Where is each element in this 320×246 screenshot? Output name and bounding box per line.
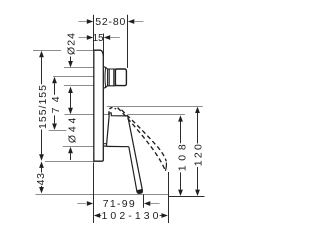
svg-text:108: 108 xyxy=(176,144,188,171)
cartridge sleeve lip arc xyxy=(104,68,107,88)
svg-text:Ø44: Ø44 xyxy=(67,117,79,143)
lever tip cap (solid dark) xyxy=(137,189,143,194)
dashed lever tip face xyxy=(165,163,166,171)
dimension 155/155 xyxy=(39,51,44,161)
wire: extension bar plate-front x103.4 xyxy=(103,34,105,57)
dimension 71-99 xyxy=(77,201,159,206)
wire: gray leader plate-top y50 xyxy=(33,50,94,52)
wire: gray leader cartridge-top y67.7 xyxy=(64,67,94,69)
handle base bottom edge xyxy=(107,145,129,147)
dimension Ø44 xyxy=(68,147,73,160)
wire: gray leader base-bottom y146.2 xyxy=(63,146,94,148)
wire: gray leader cartridge-bottom y86 xyxy=(64,85,94,87)
wire: extension bar dashed-tip x168.1 xyxy=(168,172,170,223)
wire: extension bar cartridge-front x127.5 xyxy=(127,15,129,68)
svg-text:Ø24: Ø24 xyxy=(66,33,78,55)
wire: dark tick handle-bottom right segment xyxy=(169,196,205,198)
dimension 15 xyxy=(78,35,119,40)
dimension 108 xyxy=(178,115,183,196)
svg-text:71-99: 71-99 xyxy=(103,198,135,210)
svg-text:15: 15 xyxy=(93,33,104,44)
cartridge sleeve xyxy=(104,67,108,89)
svg-text:155/155: 155/155 xyxy=(37,85,49,129)
svg-text:52-80: 52-80 xyxy=(95,16,125,28)
wire: gray leader plate-bottom y161.3 xyxy=(45,161,94,163)
svg-text:74: 74 xyxy=(50,96,62,113)
dimension 52-80 xyxy=(78,19,143,24)
wire: gray leader cartridge-center y76.4 xyxy=(53,76,94,78)
cartridge block xyxy=(115,69,126,86)
wire: extension bar solid-tip x143.5 xyxy=(143,195,145,208)
handle base (solid, lever down) xyxy=(103,113,127,146)
svg-text:102-130: 102-130 xyxy=(102,210,159,222)
svg-text:43: 43 xyxy=(35,173,47,186)
dimension 120 xyxy=(195,107,200,196)
dimension 74 xyxy=(52,77,57,130)
lever blade (solid) xyxy=(128,116,143,193)
wire: gray leader base-top y114.9 right xyxy=(128,114,185,116)
dashed lever front edge xyxy=(122,110,167,161)
wire: extension bar wall x93.6 top xyxy=(93,15,95,51)
wire: gray leader handle-bottom y195.7 xyxy=(36,194,170,196)
handle base bottom step xyxy=(103,143,106,145)
dashed lever (open position) horn xyxy=(109,108,117,115)
dimension 102-130 xyxy=(94,213,168,218)
escutcheon plate outline xyxy=(94,50,104,161)
svg-text:120: 120 xyxy=(193,144,205,166)
wire: gray leader 74-bottom y130.7 xyxy=(49,130,67,132)
wire: gray leader dashed-lever-top y106.3 xyxy=(107,106,203,108)
dashed lever back edge xyxy=(118,108,166,171)
cartridge cylinder xyxy=(108,69,116,87)
wire: gray leader base-top y114.9 left xyxy=(65,114,110,116)
wire: extension bar wall x93.6 bottom xyxy=(93,163,95,224)
dimension 43 xyxy=(39,162,44,194)
dimension Ø24 xyxy=(68,57,73,115)
